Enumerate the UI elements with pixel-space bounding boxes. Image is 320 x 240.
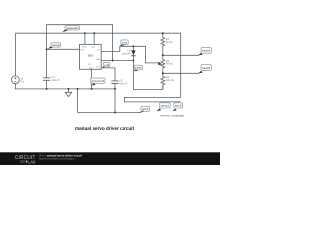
wire V1 top lead — [14, 33, 16, 76]
node servo2 flag — [172, 103, 182, 112]
svg-text:300 kΩ: 300 kΩ — [166, 79, 174, 82]
svg-text:sv2: sv2 — [175, 105, 183, 108]
wire C1 bottom lead — [46, 80, 48, 89]
svg-text:ramp: ramp — [52, 44, 60, 47]
wire THRS pin to diode column — [101, 60, 133, 62]
wire +5V rail from V1 to right, down right side, servo power jog — [15, 33, 180, 102]
svg-text:pulsewidth: pulsewidth — [66, 27, 79, 30]
resistor R2 50k zigzag — [161, 33, 165, 55]
wire 555 GND stub — [91, 69, 93, 89]
wire OUT pin to diode anode to pot wiper — [101, 46, 158, 63]
node out flag — [120, 40, 129, 46]
ground symbol — [65, 89, 71, 97]
svg-text:100 nF: 100 nF — [120, 82, 128, 85]
wire CTRL pin to C2 top — [101, 68, 115, 81]
wire diode cathode down and across to R6 bottom — [133, 56, 162, 90]
svg-text:555: 555 — [88, 53, 93, 57]
svg-text:50 kΩ: 50 kΩ — [166, 63, 173, 66]
node gnd flag on bottom wire — [139, 106, 149, 112]
voltage source V1 circle — [12, 76, 20, 84]
node touch2 flag — [198, 65, 212, 74]
capacitor C2 plates — [111, 81, 118, 84]
svg-text:LAB: LAB — [28, 160, 35, 165]
svg-text:100 nF: 100 nF — [52, 79, 60, 82]
svg-text:out: out — [122, 41, 127, 44]
svg-text:50 kΩ: 50 kΩ — [166, 41, 173, 44]
svg-text:servo outputs: servo outputs — [160, 113, 184, 117]
svg-text:5 V: 5 V — [20, 80, 24, 83]
resistor R4 pot zigzag — [161, 55, 165, 73]
wire pulsewidth net: C1 top, up left column, across, down to THRS row — [47, 25, 113, 78]
label V1 value — [20, 38, 174, 85]
footer bar — [0, 152, 220, 165]
svg-text:pulse: pulse — [135, 67, 142, 70]
wire 555 VCC stub — [93, 33, 95, 44]
wire touch2 tap — [163, 72, 199, 74]
resistor R6 zigzag — [161, 73, 165, 89]
capacitor C1 plates — [43, 78, 50, 81]
svg-text:1N4148: 1N4148 — [122, 53, 131, 56]
wire ground loop down-left and bottom run to gnd flag — [78, 89, 141, 113]
svg-text:manual servo driver circuit: manual servo driver circuit — [75, 126, 134, 132]
node ground ctl flag at GND stub — [91, 78, 105, 86]
svg-text:touch2: touch2 — [202, 66, 211, 70]
wire TRIG pin — [47, 48, 80, 50]
node ctl flag at CTRL pin — [102, 62, 110, 67]
footer logo lines — [20, 161, 25, 162]
svg-text:http://circuitlab.com/c6vq4w: http://circuitlab.com/c6vq4w — [39, 158, 75, 161]
wire touch1 tap — [163, 54, 199, 56]
svg-text:ctl: ctl — [104, 64, 109, 67]
diode D4 body — [131, 50, 135, 55]
op-amp/IC U1 555 box — [80, 44, 102, 69]
junction dots — [46, 32, 164, 113]
footer logo bolt — [26, 160, 28, 164]
wire V1 bottom lead and ground rail — [15, 84, 115, 89]
svg-text:RESET: RESET — [82, 45, 88, 48]
pot R4 wiper arrow — [158, 62, 162, 66]
wire C2 bottom through ground rail to bottom ground wire — [114, 83, 116, 112]
svg-text:CTRL: CTRL — [96, 65, 100, 68]
svg-text:touch1: touch1 — [202, 49, 211, 53]
wire 555 RESET stub — [84, 33, 86, 44]
node ramp flag at TRIG junction — [48, 43, 61, 49]
svg-text:ground ctl: ground ctl — [92, 80, 105, 83]
node touch1 flag — [198, 48, 212, 56]
svg-text:TRIG: TRIG — [80, 48, 85, 51]
svg-text:gnd: gnd — [142, 108, 149, 111]
svg-text:servo1: servo1 — [161, 105, 170, 108]
V1 plus minus — [14, 77, 16, 81]
wire diode anode stub — [132, 46, 134, 50]
node pulsewidth flag — [62, 26, 79, 32]
node servo1 flag — [156, 103, 170, 112]
svg-text:OUT: OUT — [97, 48, 101, 51]
node pulse flag at diode cathode — [134, 65, 143, 71]
